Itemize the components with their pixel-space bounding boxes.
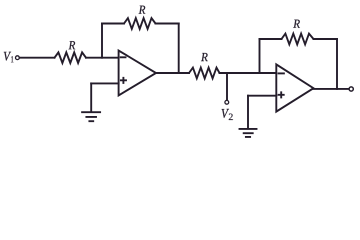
value label R of R1 [69, 41, 76, 49]
wire feedback tap up [101, 24, 103, 58]
op-amp U1 [119, 51, 156, 96]
wire ground stem U1 [90, 83, 92, 112]
resistor R1 [55, 52, 87, 63]
pin minus U2 [279, 72, 284, 74]
wire V1 to R1 [20, 57, 55, 59]
terminal V2 [225, 100, 229, 104]
wire U1 output [156, 72, 189, 74]
label V1 letter [4, 52, 11, 61]
pin minus U1 [121, 56, 126, 58]
wire ground stem U2 [247, 96, 249, 129]
wire R3 to opamp2 inverting input [220, 72, 277, 74]
ground G2 [240, 129, 257, 137]
terminal output [349, 87, 353, 91]
terminal V1 [16, 56, 20, 60]
value label R of feedback R4 [293, 20, 300, 28]
wire feedback2 down to output [336, 39, 338, 89]
wire R1 to opamp inverting input [86, 57, 119, 59]
wire feedback top right [156, 23, 179, 25]
resistor R3 [189, 68, 220, 79]
wire V2 stem [226, 73, 228, 100]
label V2 subscript 2 [229, 114, 233, 120]
value label R of R3 [201, 53, 208, 61]
wire U2 output [314, 88, 349, 90]
resistor R2 feedback [124, 18, 156, 29]
wire plus input U1 [91, 82, 118, 84]
wire feedback2 top left [260, 38, 282, 40]
wire plus input U2 [248, 95, 276, 97]
op-amp U2 [276, 64, 313, 111]
pin plus U2 [279, 92, 284, 97]
wire feedback down to output [178, 24, 180, 74]
wire feedback2 top right [314, 38, 338, 40]
wire feedback top left [102, 23, 124, 25]
label V1 subscript 1 [11, 56, 13, 62]
wire feedback2 tap up [259, 39, 261, 73]
ground G1 [82, 112, 100, 121]
label V2 letter [222, 109, 229, 118]
value label R of feedback R2 [139, 6, 146, 14]
resistor R4 feedback [282, 34, 314, 45]
pin plus U1 [121, 78, 126, 83]
